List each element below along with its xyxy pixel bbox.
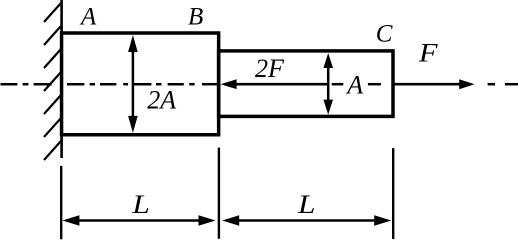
dimension extension line below wall bbox=[60, 166, 62, 239]
centerline axis (dash-dot) inside large bar bbox=[67, 83, 217, 86]
dimension line L (right span) with arrowheads bbox=[222, 215, 391, 226]
centerline dashes beside label A in small bar bbox=[332, 83, 381, 86]
svg-text:A: A bbox=[79, 4, 97, 31]
svg-text:F: F bbox=[418, 39, 439, 68]
svg-text:B: B bbox=[188, 4, 203, 31]
vertical double arrow 2A inside large bar bbox=[128, 35, 138, 133]
svg-text:C: C bbox=[376, 21, 393, 48]
small bar segment BC (area A) bbox=[219, 51, 393, 117]
centerline axis (dash-dot) right of F arrow bbox=[488, 83, 518, 86]
svg-text:A: A bbox=[345, 70, 363, 99]
wall hatching bbox=[44, 3, 61, 160]
dimension extension line below section B bbox=[218, 148, 220, 239]
svg-text:L: L bbox=[297, 190, 316, 219]
svg-text:L: L bbox=[131, 190, 150, 219]
fixed wall line bbox=[60, 0, 63, 158]
svg-text:2F: 2F bbox=[255, 54, 285, 83]
force arrow F pointing right at free end C bbox=[393, 79, 475, 89]
dimension line L (left span) with arrowheads bbox=[62, 215, 215, 226]
centerline axis (dash-dot) left of wall bbox=[1, 83, 52, 86]
svg-text:2A: 2A bbox=[147, 86, 176, 115]
dimension extension line below section C bbox=[392, 148, 394, 239]
vertical double arrow A inside small bar bbox=[323, 53, 333, 115]
force arrow 2F pointing left at section B bbox=[221, 79, 328, 89]
large bar segment AB (area 2A) bbox=[62, 33, 219, 135]
